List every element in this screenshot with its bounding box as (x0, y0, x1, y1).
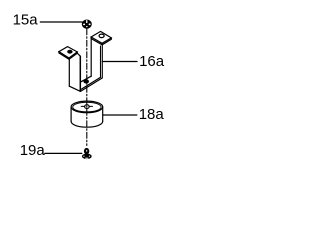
web front lower edge (81, 78, 103, 91)
web hole (84, 80, 89, 83)
right flange thickness (91, 37, 111, 45)
svg-text:19a: 19a (20, 142, 46, 159)
washer (82, 154, 92, 160)
bracket 16a (59, 31, 111, 91)
left flange thickness (59, 52, 77, 60)
svg-text:18a: 18a (139, 106, 165, 123)
right wall front edge (100, 46, 102, 77)
left flange bend to wall (77, 53, 80, 56)
leader line 19a (45, 152, 82, 154)
left wall rear edge (68, 59, 70, 87)
screw head (84, 148, 89, 154)
left wall front edge (79, 56, 81, 91)
leader line 15a (40, 21, 82, 23)
top chamfer inner ellipse (73, 102, 101, 112)
left side (70, 107, 72, 121)
screw 19a (82, 148, 92, 159)
right wall rear edge (90, 39, 92, 77)
right flange top face (91, 31, 111, 43)
bottom arc (71, 121, 103, 127)
centerline (dash-dot axis) (86, 29, 88, 146)
left flange top face (59, 47, 77, 58)
left wall bottom edge (69, 86, 80, 91)
centerline tick at cylinder hole (81, 105, 85, 107)
cylinder 18a (71, 101, 103, 127)
right side (102, 107, 104, 121)
web front upper edge (80, 77, 100, 90)
nut 15a (82, 20, 92, 29)
svg-text:15a: 15a (13, 12, 39, 29)
right flange hole (99, 34, 104, 38)
leader line 18a (103, 114, 137, 116)
right wall outer thickness edge (101, 45, 103, 78)
top rim outer ellipse (71, 101, 103, 113)
leader line 16a (102, 61, 137, 63)
web rear fold edge (81, 76, 91, 82)
left flange hole (68, 50, 72, 53)
svg-text:16a: 16a (139, 53, 165, 70)
center hole (85, 105, 90, 109)
